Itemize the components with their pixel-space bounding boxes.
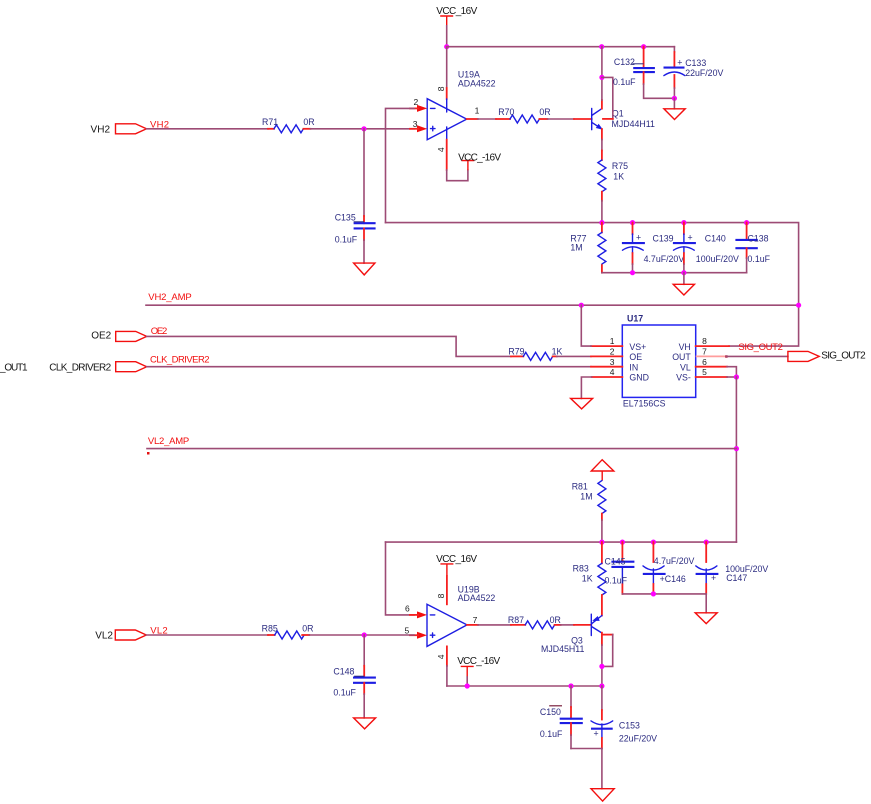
port CLK_DRIVER2 bbox=[0, 355, 210, 374]
node C150 top bbox=[568, 683, 573, 688]
node C139 top bbox=[630, 220, 635, 225]
svg-text:U17: U17 bbox=[627, 314, 643, 324]
svg-text:C140: C140 bbox=[705, 233, 726, 243]
resistor R70 0R bbox=[496, 107, 551, 123]
wire to bottom ground bbox=[601, 749, 603, 789]
resistor R71 0R bbox=[262, 117, 315, 133]
wire pin6 to pin5 node bbox=[727, 367, 736, 377]
IC U17 EL7156CS bbox=[622, 314, 695, 409]
wire R70 to Q1 base bbox=[547, 118, 574, 120]
capacitor C132 0.1uF bbox=[613, 47, 674, 99]
svg-text:SIG_OUT2: SIG_OUT2 bbox=[821, 351, 866, 362]
pin 6 stub bbox=[696, 366, 727, 368]
pin 7 stub (highlight) bbox=[696, 355, 727, 357]
node VCC_-16V stem bbox=[465, 683, 470, 688]
wire feedback to pin6 bbox=[386, 542, 415, 615]
svg-text:0R: 0R bbox=[303, 117, 314, 127]
wire top VCC rail bbox=[447, 46, 675, 48]
svg-text:R81: R81 bbox=[572, 481, 588, 491]
wire C150/C153 bottom rail bbox=[571, 748, 602, 750]
power symbol VCC_-16V (U19B) bbox=[457, 656, 500, 677]
svg-text:+C146: +C146 bbox=[660, 574, 686, 584]
node C145 top bbox=[620, 540, 625, 545]
svg-text:R85: R85 bbox=[262, 624, 278, 634]
svg-text:_OUT1: _OUT1 bbox=[0, 362, 28, 373]
svg-text:CLK_DRIVER2: CLK_DRIVER2 bbox=[150, 355, 210, 366]
wire lower ground rail bbox=[447, 685, 602, 687]
stray red mark bbox=[147, 452, 150, 455]
node Q1 collector/tab bbox=[599, 75, 604, 80]
pin 4 lead U19B bbox=[446, 646, 448, 665]
capacitor C150 0.1uF bbox=[540, 686, 583, 749]
svg-text:+: + bbox=[594, 728, 599, 738]
wire VH2_AMP rail bbox=[146, 304, 799, 306]
node C146 top bbox=[651, 540, 656, 545]
svg-text:VH2_AMP: VH2_AMP bbox=[148, 292, 191, 303]
svg-text:IN: IN bbox=[629, 362, 638, 372]
power symbol VCC_16V (U19B) bbox=[436, 554, 477, 576]
svg-text:OE: OE bbox=[629, 352, 642, 362]
pin 1 stub bbox=[591, 345, 622, 347]
svg-text:C148: C148 bbox=[333, 667, 354, 677]
svg-text:SIG_OUT2: SIG_OUT2 bbox=[738, 342, 783, 353]
node Q3 tab junction bbox=[599, 664, 604, 669]
ground (C135) bbox=[354, 263, 375, 275]
svg-text:0.1uF: 0.1uF bbox=[748, 254, 771, 264]
capacitor C148 0.1uF bbox=[333, 635, 376, 718]
capacitor C145 0.1uF bbox=[605, 542, 635, 594]
svg-text:0.1uF: 0.1uF bbox=[540, 729, 563, 739]
svg-text:8: 8 bbox=[702, 336, 707, 346]
svg-text:CLK_DRIVER2: CLK_DRIVER2 bbox=[49, 362, 111, 373]
capacitor C138 0.1uF bbox=[735, 223, 770, 273]
svg-text:0.1uF: 0.1uF bbox=[333, 687, 356, 697]
svg-text:1K: 1K bbox=[582, 574, 593, 584]
capacitor C133 22uF/20V (polarized) bbox=[664, 47, 724, 99]
wire rail down to U19A pin8 bbox=[446, 47, 448, 88]
svg-text:R79: R79 bbox=[508, 346, 524, 356]
resistor R83 1K bbox=[573, 542, 606, 615]
wire VL2_AMP rail bbox=[147, 448, 736, 450]
svg-text:C153: C153 bbox=[619, 720, 640, 730]
wire VCC stem to rail bbox=[446, 26, 448, 47]
node Q3 collector rail bbox=[599, 683, 604, 688]
svg-text:VCC_-16V: VCC_-16V bbox=[457, 656, 500, 667]
svg-text:8: 8 bbox=[436, 86, 446, 91]
svg-text:VCC_16V: VCC_16V bbox=[436, 554, 477, 565]
resistor R77 1M bbox=[570, 223, 606, 273]
capacitor C139 4.7uF/20V (polarized) bbox=[622, 223, 684, 273]
node VH2_AMP/right vertical bbox=[796, 303, 801, 308]
svg-text:0.1uF: 0.1uF bbox=[605, 575, 628, 585]
svg-text:R87: R87 bbox=[508, 615, 524, 625]
svg-text:1K: 1K bbox=[613, 172, 624, 182]
node rail/C132 bbox=[641, 44, 646, 49]
svg-text:0R: 0R bbox=[539, 107, 550, 117]
wire ground stem bbox=[683, 273, 685, 285]
svg-text:4.7uF/20V: 4.7uF/20V bbox=[644, 254, 685, 264]
svg-text:2: 2 bbox=[610, 347, 615, 357]
ground (U17 GND) bbox=[571, 398, 593, 409]
node rail/Q1 collector bbox=[599, 44, 604, 49]
svg-text:R70: R70 bbox=[498, 107, 514, 117]
svg-text:7: 7 bbox=[702, 347, 707, 357]
capacitor C153 22uF/20V (polarized, flipped) bbox=[591, 686, 657, 749]
node VH2_AMP/pin1 branch bbox=[579, 303, 584, 308]
op-amp U19B bbox=[427, 584, 495, 646]
svg-text:0.1uF: 0.1uF bbox=[613, 77, 636, 87]
wire VH2 row bbox=[147, 128, 269, 130]
pin 4 stub bbox=[592, 376, 623, 378]
svg-text:1M: 1M bbox=[580, 492, 592, 502]
svg-text:ADA4522: ADA4522 bbox=[458, 79, 496, 89]
svg-text:VL2: VL2 bbox=[95, 631, 113, 642]
svg-text:C138: C138 bbox=[748, 233, 769, 243]
node VL2_AMP tie bbox=[734, 446, 739, 451]
pin 6 arrow U19B bbox=[417, 611, 427, 618]
port VH2 bbox=[91, 119, 169, 135]
svg-text:VS-: VS- bbox=[676, 373, 691, 383]
svg-text:VL2_AMP: VL2_AMP bbox=[148, 436, 189, 447]
svg-text:3: 3 bbox=[610, 357, 615, 367]
svg-text:C135: C135 bbox=[335, 213, 356, 223]
svg-text:0R: 0R bbox=[550, 615, 561, 625]
pin 8 lead U19A bbox=[446, 88, 448, 99]
svg-text:C132: C132 bbox=[614, 57, 635, 67]
svg-text:VS+: VS+ bbox=[629, 342, 646, 352]
wire pin5 node bbox=[727, 376, 736, 378]
node R83 top bbox=[599, 540, 604, 545]
svg-text:7: 7 bbox=[473, 615, 478, 625]
svg-text:6: 6 bbox=[405, 604, 410, 614]
port SIG_OUT2 bbox=[788, 351, 866, 362]
svg-text:C133: C133 bbox=[685, 58, 706, 68]
ground (C147) bbox=[695, 613, 717, 624]
svg-text:1: 1 bbox=[475, 105, 480, 115]
port VL2 bbox=[95, 626, 167, 642]
svg-text:VCC_16V: VCC_16V bbox=[436, 6, 477, 17]
wire R79 to pin2 bbox=[557, 355, 591, 357]
svg-text:5: 5 bbox=[702, 367, 707, 377]
resistor R87 0R bbox=[508, 615, 561, 629]
svg-text:VL: VL bbox=[680, 362, 691, 372]
svg-text:EL7156CS: EL7156CS bbox=[623, 398, 666, 408]
svg-text:R75: R75 bbox=[612, 161, 628, 171]
svg-text:+: + bbox=[688, 233, 693, 243]
svg-text:R83: R83 bbox=[573, 564, 589, 574]
resistor R85 0R bbox=[262, 624, 314, 639]
svg-text:VH: VH bbox=[679, 342, 691, 352]
svg-text:6: 6 bbox=[702, 357, 707, 367]
node C132/C133 bottom junction bbox=[672, 96, 677, 101]
wire pin1 to VH2_AMP bbox=[581, 305, 591, 346]
wire R85 to pin5 bbox=[309, 634, 414, 636]
svg-text:1M: 1M bbox=[570, 242, 582, 252]
node C140 bottom/ground bbox=[681, 270, 686, 275]
svg-text:MJD45H11: MJD45H11 bbox=[541, 644, 584, 654]
wire VL2 row bbox=[146, 634, 268, 636]
ground (filter rail) bbox=[673, 284, 694, 295]
svg-text:4: 4 bbox=[436, 147, 446, 152]
svg-text:22uF/20V: 22uF/20V bbox=[619, 734, 657, 744]
transistor Q3 MJD45H11 bbox=[541, 614, 602, 654]
node R75/R77 bbox=[599, 220, 604, 225]
output pin1 wire U19A bbox=[467, 118, 478, 120]
svg-text:1: 1 bbox=[610, 336, 615, 346]
wire OE2 to R79 bbox=[147, 336, 511, 356]
pin 3 stub bbox=[591, 366, 622, 368]
wire Q1 tab bracket bbox=[602, 77, 613, 119]
wire Q3 tab bracket bbox=[603, 634, 613, 636]
svg-text:3: 3 bbox=[413, 119, 418, 129]
Q1 collector lead bbox=[601, 100, 603, 109]
svg-text:4: 4 bbox=[610, 367, 615, 377]
output pin7 wire U19B bbox=[467, 624, 478, 626]
wire R87 to Q3 base bbox=[561, 624, 574, 626]
svg-text:C145: C145 bbox=[605, 557, 626, 567]
capacitor C135 0.1uF bbox=[335, 129, 376, 263]
wire to ground bbox=[705, 594, 707, 613]
node C139 bottom bbox=[630, 270, 635, 275]
svg-text:MJD44H11: MJD44H11 bbox=[612, 119, 655, 129]
svg-text:100uF/20V: 100uF/20V bbox=[696, 254, 739, 264]
Q1 emitter wire down bbox=[601, 129, 603, 140]
op-amp U19A bbox=[427, 70, 495, 140]
pin 3 arrow U19A bbox=[417, 105, 427, 112]
wire lower cap rail bbox=[386, 541, 737, 543]
svg-text:C139: C139 bbox=[653, 233, 674, 243]
svg-text:8: 8 bbox=[436, 593, 446, 598]
node VL2/C148 bbox=[362, 632, 367, 637]
power symbol VCC_16V (top) bbox=[436, 6, 477, 26]
wire feedback rail (node VH2 emitter) bbox=[386, 223, 799, 347]
svg-text:5: 5 bbox=[405, 626, 410, 636]
resistor R79 1K bbox=[508, 346, 562, 360]
node pin5/pin6 bbox=[734, 374, 739, 379]
ground (C132/C133) bbox=[664, 109, 685, 120]
wire R71 to pin3 bbox=[310, 128, 414, 130]
svg-text:22uF/20V: 22uF/20V bbox=[685, 68, 723, 78]
wire VS- down to VL rail bbox=[735, 377, 737, 542]
wire pin7 to port bbox=[726, 355, 788, 357]
capacitor C140 100uF/20V (polarized) bbox=[673, 223, 739, 273]
svg-text:OE2: OE2 bbox=[91, 331, 111, 342]
pin 5 stub bbox=[696, 376, 727, 378]
svg-text:OE2: OE2 bbox=[151, 326, 168, 337]
wire lower cap bottom rail bbox=[622, 593, 706, 595]
svg-text:+: + bbox=[711, 573, 716, 583]
svg-text:C150: C150 bbox=[540, 707, 561, 717]
port OE2 bbox=[91, 326, 167, 342]
power symbol VCC_-16V (U19A) bbox=[458, 152, 501, 170]
transistor Q1 MJD44H11 bbox=[592, 108, 655, 129]
svg-text:1K: 1K bbox=[552, 346, 563, 356]
svg-text:0.1uF: 0.1uF bbox=[335, 235, 358, 245]
power arrow symbol (R81 up) bbox=[591, 460, 614, 481]
ground (C148) bbox=[354, 718, 376, 729]
resistor R81 1M bbox=[572, 481, 606, 520]
Q3 collector lead down bbox=[601, 633, 603, 645]
node C138 top bbox=[744, 220, 749, 225]
svg-text:C147: C147 bbox=[726, 573, 747, 583]
pin 8 lead U19B bbox=[446, 576, 448, 604]
svg-text:+: + bbox=[636, 233, 641, 243]
svg-text:ADA4522: ADA4522 bbox=[458, 593, 496, 603]
svg-text:0R: 0R bbox=[302, 624, 313, 634]
capacitor C146 4.7uF/20V (polarized, flipped) bbox=[643, 542, 695, 594]
svg-text:R71: R71 bbox=[262, 117, 278, 127]
svg-text:4.7uF/20V: 4.7uF/20V bbox=[654, 556, 695, 566]
svg-text:VH2: VH2 bbox=[91, 125, 111, 136]
svg-text:+: + bbox=[677, 57, 682, 67]
pin 2 stub bbox=[591, 355, 622, 357]
svg-text:2: 2 bbox=[414, 97, 419, 107]
svg-text:GND: GND bbox=[629, 373, 649, 383]
ground (output) bbox=[591, 789, 614, 801]
wire to ground bbox=[673, 98, 675, 109]
node VCC rail junction bbox=[444, 44, 449, 49]
wire pin4 to VCC_-16V bbox=[447, 170, 468, 181]
pin 4 lead U19A bbox=[446, 140, 448, 170]
resistor R75 1K bbox=[598, 151, 628, 201]
pin 8 stub bbox=[696, 345, 729, 347]
wire feedback pin2 bbox=[386, 108, 415, 222]
svg-text:4: 4 bbox=[436, 654, 446, 659]
node C140 top bbox=[681, 220, 686, 225]
node C147 top bbox=[704, 540, 709, 545]
svg-text:Q1: Q1 bbox=[612, 109, 624, 119]
svg-text:OUT: OUT bbox=[672, 352, 691, 362]
node C146 bottom bbox=[651, 591, 656, 596]
svg-text:VCC_-16V: VCC_-16V bbox=[458, 152, 501, 163]
node VH2/C135 junction bbox=[361, 126, 366, 131]
wire bottom rail R77/C139/C140/C138 bbox=[602, 272, 747, 274]
wire pin4 to ground bbox=[581, 377, 591, 398]
wire CLK_DRIVER2 to pin3 bbox=[147, 366, 591, 368]
capacitor C147 100uF/20V (polarized, flipped) bbox=[696, 542, 769, 594]
